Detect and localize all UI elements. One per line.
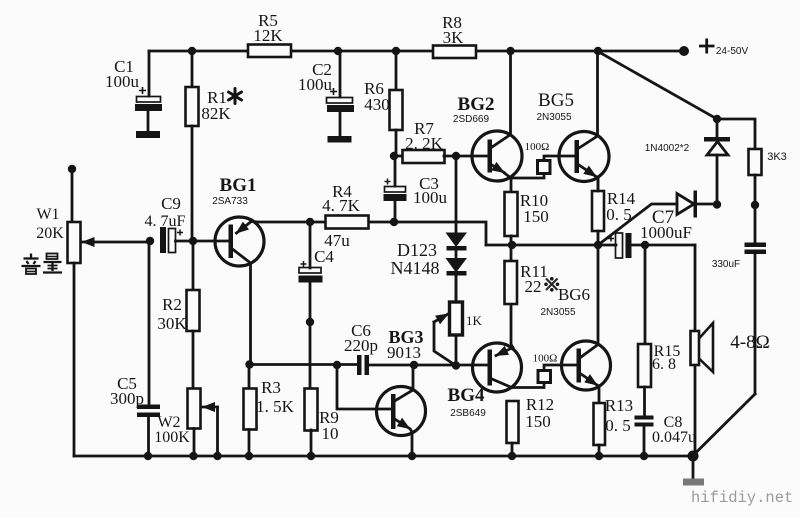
- svg-text:C9: C9: [161, 194, 181, 213]
- reference mark after 22: [544, 277, 559, 292]
- svg-text:2SD669: 2SD669: [453, 114, 490, 125]
- wire BG4 collector to 100ohm: [512, 383, 545, 388]
- transistor BG2 (2SD669 NPN): [453, 51, 522, 181]
- svg-text:3K3: 3K3: [767, 151, 787, 163]
- svg-text:1000uF: 1000uF: [640, 223, 692, 242]
- node R10-R11: [508, 241, 516, 249]
- ground: [683, 456, 704, 486]
- node R7-BG2-D123: [452, 152, 460, 160]
- capacitor C5: [110, 241, 160, 456]
- node ground end: [688, 451, 699, 462]
- node gnd-C8: [640, 452, 648, 460]
- capacitor C1: [105, 51, 162, 138]
- node gnd-R13: [595, 452, 603, 460]
- wire to 3K3: [717, 119, 755, 149]
- svg-text:1N4002*2: 1N4002*2: [645, 143, 690, 154]
- W1 wiper arrow: [83, 241, 151, 244]
- node gnd-BG3: [408, 452, 416, 460]
- svg-text:BG2: BG2: [458, 94, 495, 115]
- resistor 100ohm (lower): [533, 353, 577, 383]
- trimmer 1K: [434, 276, 483, 366]
- node BG1 collector-R3: [245, 360, 253, 368]
- capacitor C7: [608, 207, 692, 258]
- svg-text:4. 7K: 4. 7K: [322, 196, 361, 215]
- node rail-R6: [392, 47, 400, 55]
- svg-text:100u: 100u: [105, 72, 140, 91]
- resistor R5: [248, 11, 291, 57]
- node R4-C4: [306, 218, 314, 226]
- resistor 3K3: [749, 149, 787, 205]
- svg-text:2N3055: 2N3055: [536, 112, 571, 123]
- svg-text:R2: R2: [162, 295, 182, 314]
- capacitor C9: [145, 194, 193, 253]
- capacitor C4: [299, 222, 351, 389]
- transistor BG4 (2SB649 PNP): [448, 343, 522, 419]
- node 1K-BG4 base: [452, 361, 460, 369]
- node gnd-W2 wiper: [213, 452, 221, 460]
- svg-text:3K: 3K: [443, 28, 465, 47]
- node gnd-C5: [144, 452, 152, 460]
- svg-text:2. 2K: 2. 2K: [405, 134, 444, 153]
- svg-text:100Ω: 100Ω: [533, 353, 558, 365]
- node rail-BG2: [506, 47, 514, 55]
- svg-text:12K: 12K: [253, 26, 283, 45]
- svg-text:R13: R13: [605, 396, 633, 415]
- wire diagonal output to diode: [598, 204, 677, 245]
- svg-text:82K: 82K: [201, 104, 231, 123]
- svg-text:24-50V: 24-50V: [716, 46, 749, 57]
- svg-text:4. 7uF: 4. 7uF: [145, 213, 186, 230]
- svg-text:220p: 220p: [344, 336, 378, 355]
- svg-text:1. 5K: 1. 5K: [256, 397, 295, 416]
- node C4-R9: [306, 318, 314, 326]
- svg-text:150: 150: [525, 412, 551, 431]
- svg-text:330uF: 330uF: [712, 259, 740, 270]
- capacitor C2: [298, 51, 354, 143]
- svg-text:6. 8: 6. 8: [652, 356, 676, 373]
- resistor R2: [157, 241, 199, 389]
- potentiometer W2: [154, 389, 200, 457]
- wire top supply rail: [149, 50, 684, 53]
- resistor R3: [244, 365, 295, 457]
- wire mid rail (y=365): [250, 363, 357, 366]
- resistor R7: [394, 119, 488, 163]
- transistor BG5 (2N3055 NPN): [536, 51, 609, 191]
- capacitor C3: [384, 156, 448, 222]
- node 1N4002 top: [713, 115, 721, 123]
- svg-text:4-8Ω: 4-8Ω: [730, 332, 769, 353]
- svg-text:1K: 1K: [466, 313, 483, 328]
- wire BG4 emitter to R11: [511, 304, 513, 348]
- node rail-R1: [188, 47, 196, 55]
- node BG3 collector: [410, 361, 418, 369]
- svg-text:C4: C4: [314, 247, 334, 266]
- diodes D123 N4148: [391, 156, 468, 302]
- resistor R9: [305, 389, 339, 457]
- svg-text:2SA733: 2SA733: [212, 196, 248, 207]
- resistor R6: [364, 51, 402, 156]
- svg-text:W1: W1: [36, 206, 59, 223]
- node R6-R7-C3: [390, 152, 398, 160]
- speaker 4-8ohm: [691, 323, 770, 372]
- svg-text:BG4: BG4: [448, 385, 485, 406]
- wire 330uF to ground node: [694, 394, 755, 455]
- svg-text:30K: 30K: [157, 314, 187, 333]
- svg-text:10: 10: [322, 424, 339, 443]
- wire ground rail: [74, 455, 693, 458]
- power terminal +24-50V: [679, 39, 748, 58]
- resistor R8: [433, 13, 476, 58]
- node diode-1N4002-3K3: [713, 200, 721, 208]
- svg-text:22: 22: [525, 277, 542, 296]
- svg-text:D123: D123: [397, 240, 437, 260]
- wire BG1 emitter feedback (y=222): [253, 222, 487, 246]
- svg-text:2N3055: 2N3055: [540, 307, 575, 318]
- svg-text:100u: 100u: [298, 75, 333, 94]
- svg-text:N4148: N4148: [391, 258, 440, 278]
- wire diagonal rail to 1N4002: [598, 52, 717, 120]
- node C7-R15-speaker: [641, 241, 649, 249]
- capacitor 330uF: [712, 205, 766, 394]
- potentiometer W1 input terminal: [68, 165, 76, 173]
- node R14-BG6-C7: [594, 241, 602, 249]
- svg-text:BG5: BG5: [538, 90, 574, 111]
- svg-text:100K: 100K: [154, 429, 190, 446]
- transistor BG6 (2N3055 NPN): [540, 245, 610, 403]
- transistor BG3 (9013 NPN): [377, 327, 426, 456]
- node W1-C9-C5: [146, 237, 154, 245]
- node rail-BG5: [594, 47, 602, 55]
- potentiometer W1: [36, 169, 80, 456]
- svg-text:BG1: BG1: [220, 175, 257, 196]
- diodes 1N4002*2: [645, 119, 730, 204]
- svg-text:9013: 9013: [387, 343, 421, 362]
- wire to BG3 base: [337, 365, 391, 409]
- wire speaker branch: [694, 245, 697, 455]
- resistor R10: [505, 178, 549, 245]
- svg-text:R3: R3: [261, 378, 281, 397]
- svg-text:20K: 20K: [36, 225, 64, 242]
- svg-text:100Ω: 100Ω: [525, 141, 550, 153]
- svg-text:0.047u: 0.047u: [652, 429, 696, 446]
- svg-text:430: 430: [364, 95, 390, 114]
- capacitor C8: [635, 414, 697, 456]
- resistor 100ohm (upper): [511, 141, 575, 178]
- svg-text:150: 150: [523, 207, 549, 226]
- node rail-C2: [334, 47, 342, 55]
- capacitor C6: [344, 321, 378, 375]
- resistor R12: [507, 395, 555, 456]
- resistor R15: [638, 245, 680, 416]
- resistor R11: [505, 245, 548, 304]
- svg-text:0. 5: 0. 5: [605, 416, 631, 435]
- resistor R4: [322, 182, 368, 229]
- node R4-C3: [390, 218, 398, 226]
- svg-text:BG6: BG6: [558, 285, 590, 304]
- label volume (Chinese): [22, 254, 63, 275]
- node gnd-R3: [245, 452, 253, 460]
- node gnd-R12: [508, 452, 516, 460]
- svg-text:hifidiy.net: hifidiy.net: [691, 489, 793, 507]
- svg-text:2SB649: 2SB649: [450, 408, 486, 419]
- svg-text:300p: 300p: [110, 389, 144, 408]
- wire output rail (y=245): [486, 244, 616, 247]
- diode output to supply: [677, 191, 717, 218]
- node gnd-R9: [307, 452, 315, 460]
- node C9-R1-R2-BG1 base: [189, 237, 197, 245]
- W2 wiper arrow and wire: [216, 407, 219, 456]
- node 3K3-330uF: [751, 201, 759, 209]
- resistor R13: [594, 396, 634, 456]
- transistor BG1 (2SA733 PNP): [193, 175, 264, 365]
- svg-text:100u: 100u: [413, 188, 448, 207]
- node gnd-W2: [189, 452, 197, 460]
- resistor R1: [186, 51, 242, 241]
- resistor R14: [592, 178, 636, 245]
- node C6-BG3 base branch: [333, 361, 341, 369]
